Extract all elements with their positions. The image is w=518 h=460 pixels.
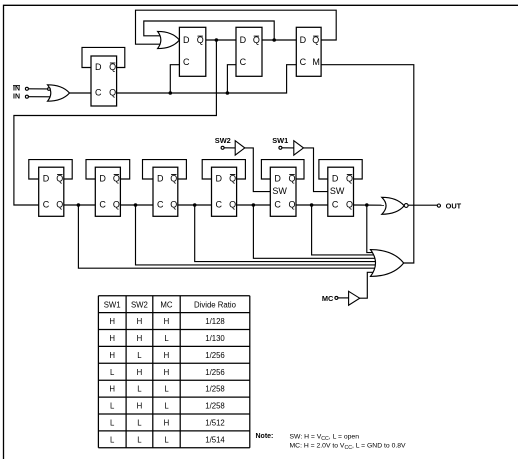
svg-text:L: L bbox=[110, 419, 115, 428]
svg-text:C: C bbox=[240, 57, 247, 67]
svg-text:L: L bbox=[164, 402, 169, 411]
svg-text:H: H bbox=[164, 368, 170, 377]
svg-text:H: H bbox=[164, 351, 170, 360]
svg-text:H: H bbox=[137, 317, 143, 326]
svg-text:L: L bbox=[137, 385, 142, 394]
svg-text:D: D bbox=[300, 35, 307, 45]
svg-text:Q: Q bbox=[197, 35, 204, 45]
svg-text:C: C bbox=[332, 199, 339, 209]
svg-text:IN: IN bbox=[13, 93, 20, 100]
svg-text:Divide Ratio: Divide Ratio bbox=[194, 300, 237, 309]
svg-text:D: D bbox=[183, 35, 190, 45]
svg-text:Q: Q bbox=[229, 199, 236, 209]
svg-text:1/128: 1/128 bbox=[205, 317, 225, 326]
svg-text:L: L bbox=[110, 435, 115, 444]
svg-text:D: D bbox=[240, 35, 247, 45]
svg-text:L: L bbox=[110, 402, 115, 411]
svg-text:SW1: SW1 bbox=[104, 300, 121, 309]
svg-text:H: H bbox=[137, 402, 143, 411]
svg-text:M: M bbox=[312, 57, 320, 67]
svg-text:1/258: 1/258 bbox=[205, 385, 225, 394]
svg-text:Q: Q bbox=[288, 199, 295, 209]
svg-text:H: H bbox=[137, 368, 143, 377]
svg-text:Q: Q bbox=[170, 174, 177, 184]
svg-text:L: L bbox=[137, 419, 142, 428]
svg-text:1/258: 1/258 bbox=[205, 402, 225, 411]
svg-text:C: C bbox=[157, 199, 164, 209]
svg-text:Q: Q bbox=[253, 35, 260, 45]
svg-text:1/256: 1/256 bbox=[205, 368, 225, 377]
svg-text:Q: Q bbox=[56, 199, 63, 209]
svg-text:D: D bbox=[332, 174, 339, 184]
svg-text:MC: MC bbox=[160, 300, 172, 309]
svg-text:L: L bbox=[164, 334, 169, 343]
svg-text:1/512: 1/512 bbox=[205, 419, 225, 428]
svg-text:H: H bbox=[109, 317, 115, 326]
svg-text:SW2: SW2 bbox=[131, 300, 148, 309]
svg-text:H: H bbox=[137, 334, 143, 343]
svg-text:Note:: Note: bbox=[256, 433, 274, 440]
svg-text:Q: Q bbox=[56, 174, 63, 184]
svg-text:SW1: SW1 bbox=[272, 136, 288, 145]
svg-text:C: C bbox=[95, 87, 102, 97]
svg-text:Q: Q bbox=[109, 87, 116, 97]
svg-text:H: H bbox=[164, 317, 170, 326]
svg-text:H: H bbox=[109, 334, 115, 343]
svg-text:1/514: 1/514 bbox=[205, 435, 225, 444]
svg-text:D: D bbox=[95, 62, 102, 72]
svg-text:OUT: OUT bbox=[446, 202, 462, 211]
svg-text:D: D bbox=[43, 174, 50, 184]
svg-text:C: C bbox=[216, 199, 223, 209]
svg-text:C: C bbox=[99, 199, 106, 209]
svg-text:C: C bbox=[43, 199, 50, 209]
svg-text:Q: Q bbox=[346, 174, 353, 184]
svg-text:SW2: SW2 bbox=[215, 136, 231, 145]
svg-text:Q: Q bbox=[229, 174, 236, 184]
svg-text:D: D bbox=[216, 174, 223, 184]
svg-text:1/256: 1/256 bbox=[205, 351, 225, 360]
svg-text:Q: Q bbox=[113, 199, 120, 209]
svg-text:H: H bbox=[109, 351, 115, 360]
svg-text:Q: Q bbox=[170, 199, 177, 209]
svg-text:D: D bbox=[157, 174, 164, 184]
svg-text:D: D bbox=[274, 174, 281, 184]
svg-text:H: H bbox=[164, 419, 170, 428]
svg-text:Q: Q bbox=[109, 62, 116, 72]
svg-text:Q: Q bbox=[288, 174, 295, 184]
svg-text:H: H bbox=[109, 385, 115, 394]
svg-text:MC: MC bbox=[322, 294, 334, 303]
svg-text:IN: IN bbox=[13, 86, 20, 93]
svg-text:SW: SW bbox=[330, 186, 345, 196]
svg-text:C: C bbox=[274, 199, 281, 209]
svg-text:L: L bbox=[164, 435, 169, 444]
svg-text:C: C bbox=[300, 57, 307, 67]
svg-text:Q: Q bbox=[113, 174, 120, 184]
svg-text:L: L bbox=[137, 351, 142, 360]
svg-text:Q: Q bbox=[312, 35, 319, 45]
svg-text:L: L bbox=[164, 385, 169, 394]
svg-text:L: L bbox=[137, 435, 142, 444]
svg-text:1/130: 1/130 bbox=[205, 334, 225, 343]
svg-text:Q: Q bbox=[346, 199, 353, 209]
svg-text:L: L bbox=[110, 368, 115, 377]
svg-text:C: C bbox=[183, 57, 190, 67]
svg-text:D: D bbox=[99, 174, 106, 184]
svg-text:SW: SW bbox=[272, 186, 287, 196]
